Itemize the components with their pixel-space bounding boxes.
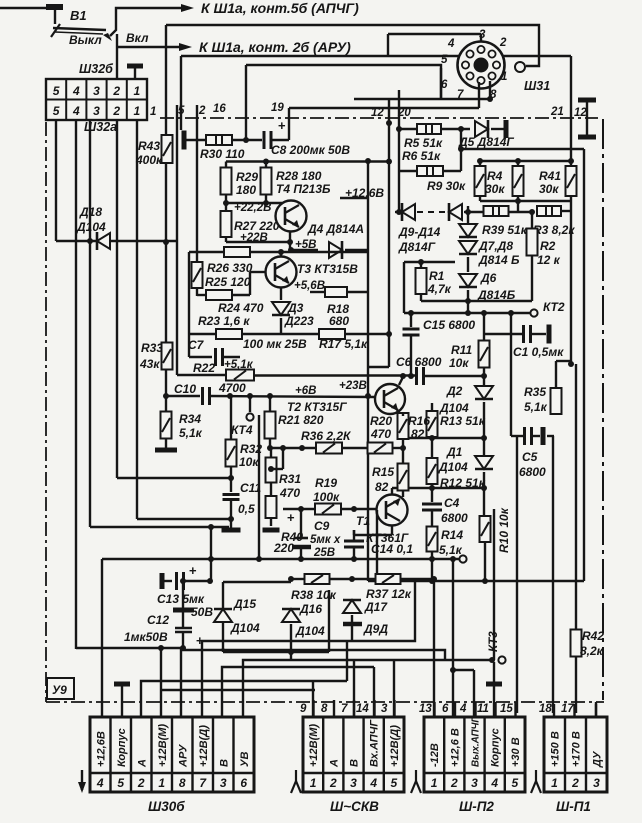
wire x571 long vertical [570,56,572,166]
svg-text:R17 5,1к: R17 5,1к [319,337,368,351]
resistor R29 180 [225,162,227,169]
rail y438 [403,437,484,439]
svg-text:2: 2 [112,84,120,98]
svg-text:2: 2 [137,776,145,790]
svg-text:+: + [287,510,295,525]
wire socket pin8 to rail [489,81,491,99]
svg-text:Д7,Д8: Д7,Д8 [478,239,513,253]
stage box around Т3 [189,251,368,253]
svg-text:13: 13 [419,703,432,715]
svg-text:0,5: 0,5 [238,502,255,516]
svg-text:А: А [328,759,340,768]
wire [90,526,229,528]
svg-text:Корпус: Корпус [490,728,502,767]
wire to APCHG arrow [110,8,182,36]
arrow to К Ш1а конт.5б [181,4,194,12]
resistor R35 5,1к [556,360,571,362]
svg-text:В1: В1 [70,8,87,23]
svg-text:1: 1 [134,104,141,118]
wire x553 [552,436,554,713]
svg-text:3: 3 [350,776,357,790]
wire C13 row [101,559,103,717]
svg-text:Д5 Д814Г: Д5 Д814Г [458,135,514,149]
test point КТ4 [249,396,251,412]
svg-text:-12В: -12В [429,743,441,767]
svg-text:11: 11 [477,703,489,715]
wire [467,206,469,224]
resistor R21 820 [269,396,271,412]
svg-text:2: 2 [329,776,337,790]
svg-text:КТ4: КТ4 [231,423,253,437]
rail y99 [354,98,490,100]
svg-text:С9: С9 [314,519,330,533]
wire T2 collector [399,377,403,385]
diode Д3 Д223 [280,288,282,300]
transistor Т1 КТ361Г [377,495,408,526]
block label У9 [47,678,74,699]
wire y149 [461,148,584,150]
wire T1 base area down [376,510,378,581]
svg-text:+150 В: +150 В [550,731,562,767]
wire y557 long [102,558,459,560]
svg-text:Д9-Д14: Д9-Д14 [398,225,441,239]
resistor R9 30к [399,170,417,172]
capacitor С5 6800 [511,435,524,437]
svg-text:Т4 П213Б: Т4 П213Б [276,182,331,196]
svg-text:R39 51к: R39 51к [482,223,528,237]
svg-text:3: 3 [93,84,100,98]
resistor R18 680 [325,287,347,297]
svg-text:4,7к: 4,7к [427,282,452,296]
wire [76,647,184,649]
svg-text:1: 1 [150,106,156,118]
svg-text:+170 В: +170 В [571,731,583,767]
svg-text:+: + [278,118,286,133]
svg-text:470: 470 [279,486,300,500]
wire bottom of R4 trio [480,200,571,202]
svg-text:1: 1 [551,776,558,790]
wire pin5 vertical [180,56,182,130]
svg-text:1: 1 [501,71,507,83]
bus wire 6 [160,648,162,717]
svg-text:+12,6В: +12,6В [95,731,107,767]
svg-text:Ш-П1: Ш-П1 [556,799,591,814]
svg-text:6800: 6800 [441,511,468,525]
svg-text:R25 120: R25 120 [205,275,251,289]
svg-text:К Ш1а, конт. 2б (АРУ): К Ш1а, конт. 2б (АРУ) [199,39,351,55]
svg-text:R42: R42 [582,629,604,643]
wire [441,128,470,130]
svg-text:400к: 400к [135,153,163,167]
svg-text:R28 180: R28 180 [276,169,322,183]
svg-text:Д104: Д104 [438,460,468,474]
svg-text:R3 8,2к: R3 8,2к [533,223,575,237]
svg-text:ДУ: ДУ [592,750,604,768]
svg-text:R26 330: R26 330 [207,261,253,275]
svg-text:+5,6В: +5,6В [294,280,325,292]
svg-text:4: 4 [490,776,498,790]
resistor R4 30к [475,166,486,196]
+12,6В rail [226,160,390,162]
wire to ARU arrow [117,46,180,48]
ground below С11 [230,519,232,528]
svg-text:25В: 25В [313,547,335,559]
switch contact Вкл [103,33,112,41]
svg-text:180: 180 [236,183,256,197]
svg-text:Ш-П2: Ш-П2 [459,799,494,814]
svg-text:R30 110: R30 110 [200,147,245,161]
svg-text:R21 820: R21 820 [278,413,324,427]
svg-text:5: 5 [53,84,60,98]
svg-text:С7: С7 [188,338,205,352]
svg-text:Выкл: Выкл [69,33,102,47]
zener Д8 [459,241,477,254]
svg-text:В: В [349,759,361,767]
svg-text:Вых.АПЧГ: Вых.АПЧГ [471,716,482,767]
svg-text:Корпус: Корпус [116,728,128,767]
svg-text:С12: С12 [147,613,169,627]
svg-text:R29: R29 [236,170,258,184]
capacitor С7 [214,348,217,366]
wire x453 Вых.АПЧГ [452,559,454,717]
svg-text:5: 5 [117,776,124,790]
svg-text:4: 4 [72,84,80,98]
wire x518 to diode rail [517,201,519,211]
svg-text:43к: 43к [139,357,160,371]
wire y581 long [368,580,584,582]
svg-text:100 мк 25В: 100 мк 25В [243,337,307,351]
terminal plug above Ш32б pin 1 [127,64,143,69]
wire [117,477,231,479]
unit boundary У9 dash-dot frame [160,117,598,119]
wire Ш32а pin1 down [136,120,138,519]
svg-text:4: 4 [447,38,455,50]
wire x494 down [493,509,495,660]
svg-text:R22: R22 [193,361,215,375]
connector Ш-П1 [544,717,607,792]
svg-text:Д2: Д2 [446,384,463,398]
connector Ш-СКВ [303,717,404,792]
svg-text:8,2к: 8,2к [580,644,604,658]
svg-text:Д814 Б: Д814 Б [478,253,520,267]
svg-text:Д15: Д15 [233,597,256,611]
svg-text:R5 51к: R5 51к [404,136,443,150]
svg-text:С1 0,5мк: С1 0,5мк [513,345,564,359]
nested wire to socket side contact [166,25,539,66]
cable branch symbol [415,770,417,781]
svg-text:5: 5 [391,776,398,790]
zener Д7 [459,224,477,237]
bus drops П2 [433,579,435,717]
transistor Т3 КТ315В [266,257,297,288]
test point circle [459,555,466,562]
svg-text:R34: R34 [179,412,201,426]
svg-text:100к: 100к [313,490,340,504]
resistor R17 5,1к [319,329,345,339]
resistor R11 10к [483,313,485,341]
svg-text:5: 5 [441,54,448,66]
svg-text:Д16: Д16 [299,602,322,616]
svg-text:R13 51к: R13 51к [440,414,486,428]
stage box bottom [223,581,291,583]
svg-text:R20: R20 [370,414,392,428]
cable branch symbol [295,770,297,781]
transistor Т4 [276,201,307,232]
svg-text:+6В: +6В [295,385,316,397]
ground arrow left of Ш30б [81,770,83,790]
svg-text:Д6: Д6 [480,271,497,285]
svg-text:Ш~СКВ: Ш~СКВ [330,799,379,814]
svg-text:Д104: Д104 [439,401,469,415]
svg-text:С8 200мк 50В: С8 200мк 50В [271,143,350,157]
svg-text:Д3: Д3 [287,301,304,315]
wire [340,197,368,199]
svg-text:Д223: Д223 [284,314,314,328]
wire Ш32а pin5 down [55,120,57,241]
svg-text:Вкл: Вкл [126,31,149,45]
svg-text:В: В [218,759,230,767]
svg-text:R6 51к: R6 51к [402,149,441,163]
wire switch common down to Ш32б pin 2 [116,34,118,79]
svg-text:5,1к: 5,1к [524,400,548,414]
svg-text:У9: У9 [52,683,67,697]
svg-text:6800: 6800 [519,465,546,479]
wire socket bottom pin to rail [478,82,480,108]
terminal plug pin5 [182,131,187,150]
svg-text:+22,2В: +22,2В [234,202,271,214]
ground below R34 [155,448,177,453]
capacitor С8 200мк 50В [263,131,266,149]
svg-text:680: 680 [329,314,349,328]
resistor R27 220 [225,203,227,211]
svg-text:Д104: Д104 [76,220,106,234]
terminal plug top-left [46,4,63,10]
svg-text:220: 220 [273,541,294,555]
svg-text:R14: R14 [441,528,463,542]
zener Д6 [459,274,477,287]
test point КТ3 [489,657,495,663]
diode Д4 [329,242,342,258]
wire [225,195,227,203]
capacitor С14 0,1 [353,530,355,541]
bus drop ДУ [595,702,597,717]
svg-text:С10: С10 [174,382,196,396]
svg-text:R10 10к: R10 10к [497,507,511,553]
svg-text:+12,6 В: +12,6 В [449,728,461,767]
svg-text:82: 82 [411,427,425,441]
resistor R24 470 [206,290,232,300]
svg-text:2: 2 [112,104,120,118]
connector Ш30б [90,717,254,792]
svg-text:5,1к: 5,1к [179,426,203,440]
svg-text:8: 8 [179,776,186,790]
svg-text:С15 6800: С15 6800 [423,318,475,332]
svg-text:Д4 Д814А: Д4 Д814А [307,222,364,236]
wire Ш32а pin2 down [116,120,118,478]
resistor R13 [431,403,433,410]
capacitor С1 0,5мк [510,313,512,436]
wire Ш32а pin3 down [89,120,91,527]
diodes Д9-Д14 Д814Г [395,211,399,213]
svg-text:+30 В: +30 В [510,737,522,767]
svg-text:+23В: +23В [339,380,367,392]
svg-text:1мк50В: 1мк50В [124,630,168,644]
resistor R41 30к [566,166,577,196]
resistor R28 180 / transistor Т4 П213Б [265,162,267,169]
svg-text:С6 6800: С6 6800 [396,355,442,369]
svg-text:Ш32б: Ш32б [79,62,114,76]
rail y108 [289,107,479,109]
svg-text:R9 30к: R9 30к [427,179,466,193]
svg-text:R11: R11 [451,343,472,357]
wire [232,139,262,141]
svg-text:5: 5 [53,104,60,118]
connector Ш-П2 [424,717,525,792]
wire +12,6В rail to resistors [480,160,571,162]
svg-text:R35: R35 [524,385,546,399]
svg-text:Т3 КТ315В: Т3 КТ315В [297,262,358,276]
svg-text:Вх.АПЧГ: Вх.АПЧГ [369,719,381,767]
svg-text:Д814Г: Д814Г [398,240,436,254]
svg-text:7: 7 [341,703,348,715]
svg-text:5мк х: 5мк х [310,534,341,546]
wire x166 down [165,118,167,135]
svg-text:R27 220: R27 220 [234,219,280,233]
svg-text:+12В(М): +12В(М) [308,724,320,767]
svg-text:+12В(М): +12В(М) [157,724,169,767]
svg-text:Д18: Д18 [79,205,102,219]
resistor R39 51к [484,206,509,216]
svg-text:8: 8 [321,703,328,715]
svg-text:3: 3 [471,776,478,790]
svg-text:R19: R19 [315,476,337,490]
nested wire to socket pin 3 [181,55,459,57]
wire [137,518,231,520]
wire x389 long [388,99,390,367]
svg-text:15: 15 [500,703,513,715]
svg-text:+12В(Д): +12В(Д) [389,725,401,767]
svg-text:14: 14 [356,703,369,715]
resistor R5 51к [399,128,417,130]
bus wire 5 [141,681,347,717]
svg-text:9: 9 [300,703,307,715]
svg-text:12: 12 [574,107,587,119]
terminal 12 upper [578,98,596,103]
svg-text:12 к: 12 к [537,253,561,267]
svg-text:1: 1 [134,84,141,98]
svg-text:УВ: УВ [239,752,251,767]
capacitor С13 5мк 50В [160,573,165,589]
svg-text:R16: R16 [408,414,430,428]
svg-text:3: 3 [220,776,227,790]
svg-text:17: 17 [561,703,574,715]
wire x517 down [516,436,518,713]
svg-text:21: 21 [550,106,564,118]
svg-text:R31: R31 [279,472,301,486]
svg-text:Ш30б: Ш30б [148,799,185,814]
resistor R26 330 [224,247,250,257]
svg-text:+: + [189,563,197,578]
svg-text:2: 2 [499,37,507,49]
resistor R10 10к [480,516,491,542]
svg-text:К Ш1а, конт.5б (АПЧГ): К Ш1а, конт.5б (АПЧГ) [201,0,359,16]
svg-text:6: 6 [240,776,247,790]
svg-text:Т2 КТ315Г: Т2 КТ315Г [287,400,347,414]
wire Ш32-1 left vertical [165,25,167,118]
svg-text:3: 3 [593,776,600,790]
resistor R14 5,1к [427,527,438,552]
cable branch symbol [535,770,537,781]
svg-text:6: 6 [442,703,449,715]
resistor (middle) [513,166,524,196]
connector stubs [312,700,314,717]
svg-text:Д104: Д104 [295,624,325,638]
svg-text:R15: R15 [372,465,394,479]
svg-text:С4: С4 [444,496,460,510]
terminal Корпус П2 [486,682,502,687]
svg-text:3: 3 [93,104,100,118]
svg-text:3: 3 [381,703,388,715]
svg-text:4: 4 [459,703,467,715]
wire x399 vertical [398,90,400,212]
svg-text:R33: R33 [141,341,163,355]
wire contact 2 down to R25 [196,105,198,252]
diode Д5 Д814Г [475,121,488,137]
wire Ш32а pin4 down [75,120,77,649]
svg-text:R43: R43 [138,139,160,153]
svg-text:Д104: Д104 [230,621,260,635]
svg-text:4: 4 [96,776,104,790]
socket side contact [515,62,525,72]
bus wire 7 [290,652,292,659]
resistor R2 12к [531,212,533,228]
resistor R30 110 [206,135,232,145]
diode Д1 Д104 [475,456,493,469]
svg-text:1: 1 [431,776,438,790]
svg-text:4700: 4700 [218,381,246,395]
arrow to К Ш1а конт.2б [179,43,192,51]
svg-text:470: 470 [370,427,391,441]
tube socket Ш31 [458,42,505,89]
diode Д2 Д104 [475,386,493,399]
svg-text:R23 1,6 к: R23 1,6 к [198,314,250,328]
stage box left edge [258,415,260,559]
svg-text:30к: 30к [539,182,559,196]
svg-text:5,1к: 5,1к [439,543,463,557]
terminal 12 lower [578,135,596,140]
bus wire 1 [202,579,415,717]
svg-text:R41: R41 [539,169,561,183]
svg-text:А: А [136,759,148,768]
wire [0,7,50,9]
svg-text:16: 16 [213,103,226,115]
terminal Корпус Ш30б [114,682,130,687]
nested wire to socket pin left [246,65,441,99]
svg-text:Т1: Т1 [356,514,370,528]
svg-text:R4: R4 [487,169,503,183]
svg-text:R2: R2 [540,239,556,253]
svg-text:С13 5мк: С13 5мк [157,592,205,606]
svg-text:18: 18 [539,703,552,715]
test point КТ2 [404,312,530,314]
svg-text:R1: R1 [429,269,445,283]
resistor R32 10к [230,396,232,440]
svg-text:3: 3 [479,29,486,41]
svg-text:10к: 10к [449,356,469,370]
svg-text:2: 2 [571,776,579,790]
wire T2 emitter to R16 [397,410,403,417]
svg-text:50В: 50В [191,605,213,619]
